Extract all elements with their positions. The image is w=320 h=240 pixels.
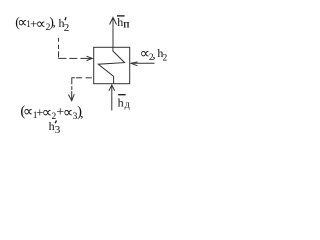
svg-text:∝: ∝ [36, 16, 46, 32]
wire: dashed drain outlet from box (horizontal) [76, 77, 92, 79]
label h_d text [118, 96, 130, 111]
label h_P overbar [117, 15, 125, 17]
wire: dashed condensate line from h'2 (vertical) [58, 38, 60, 58]
wire: condensate inlet from bottom [111, 85, 113, 110]
svg-text:,: , [53, 15, 56, 30]
label h_P text [117, 15, 130, 29]
label (a1+a2), h'2 [15, 14, 69, 34]
label h_d overbar [118, 94, 126, 96]
label h'3 [49, 119, 61, 136]
arrowhead right (left inlet) [87, 56, 93, 60]
arrowhead down (drain outlet) [68, 94, 74, 101]
wire: steam inlet from right [131, 62, 155, 64]
arrowhead up (top outlet) [110, 17, 117, 24]
arrowhead left (right inlet) [131, 62, 138, 66]
heat exchanger box [94, 47, 130, 83]
label alpha2, h2 [140, 46, 168, 64]
zigzag heating surface inside box [98, 47, 124, 83]
svg-text:,: , [80, 105, 83, 120]
svg-text:д: д [125, 99, 130, 110]
wire: outlet line to h_P (top) [112, 18, 114, 48]
svg-text:П: П [123, 20, 130, 29]
prime tick of h'3 [55, 121, 56, 124]
wire: dashed condensate line to box (horizontal) [58, 57, 87, 59]
svg-text:h: h [118, 96, 124, 110]
svg-text:2: 2 [163, 54, 168, 64]
wire: dashed drain outlet (vertical down) [72, 78, 75, 101]
label (a1+a2+a3), [20, 104, 83, 123]
svg-text:h: h [49, 119, 55, 133]
svg-text:3: 3 [55, 124, 61, 136]
arrowhead up (bottom inlet) [109, 85, 115, 91]
prime tick of h'2 [65, 17, 66, 20]
svg-text:,: , [152, 46, 155, 61]
svg-text:2: 2 [64, 22, 69, 34]
